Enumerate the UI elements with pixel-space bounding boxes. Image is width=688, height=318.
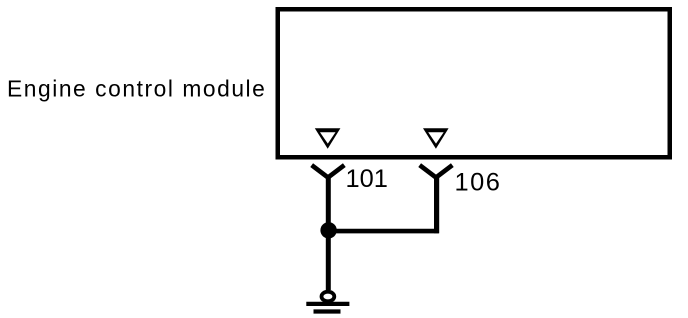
svg-text:106: 106 <box>455 169 502 197</box>
svg-text:Engine control module: Engine control module <box>7 76 266 102</box>
svg-text:101: 101 <box>346 165 388 193</box>
